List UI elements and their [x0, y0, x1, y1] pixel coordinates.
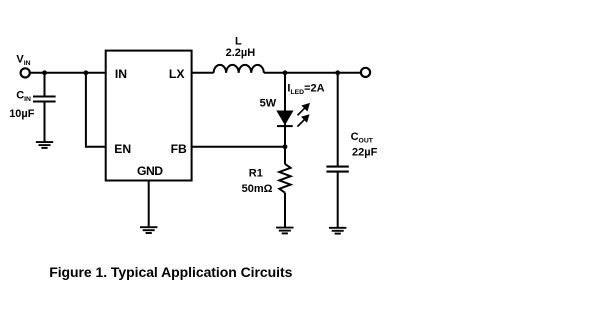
svg-text:5W: 5W [260, 97, 277, 109]
wire FB [192, 146, 285, 148]
wire LED to FB node [284, 124, 286, 147]
LED emission arrows [297, 103, 310, 127]
IC U1 block [106, 51, 192, 181]
wire EN branch [86, 73, 106, 147]
svg-text:Figure 1. Typical Application: Figure 1. Typical Application Circuits [49, 264, 292, 280]
svg-text:2.2µH: 2.2µH [226, 47, 256, 59]
wire R1 to ground [284, 193, 286, 228]
wire CIN to ground [44, 102, 46, 143]
svg-text:22µF: 22µF [352, 146, 378, 158]
svg-text:R1: R1 [249, 168, 263, 180]
wire COUT branch down [337, 73, 339, 166]
capacitor CIN plates [33, 95, 56, 97]
svg-text:EN: EN [114, 142, 131, 156]
svg-text:IN: IN [115, 67, 127, 81]
wire GND pin down [148, 181, 150, 228]
LED D1 [277, 111, 293, 126]
output terminal [361, 68, 370, 77]
svg-text:10µF: 10µF [9, 108, 35, 120]
capacitor CIN [33, 73, 56, 142]
wire inductor to output terminal [264, 72, 361, 74]
wire down to CIN [44, 73, 46, 96]
node EN tap [84, 70, 89, 75]
capacitor COUT plates [326, 166, 348, 168]
svg-text:FB: FB [171, 142, 187, 156]
input terminal VIN [21, 68, 30, 77]
ground (COUT) [329, 228, 346, 234]
svg-text:GND: GND [137, 164, 163, 178]
node CIN tap [42, 70, 47, 75]
wire VIN to IN pin [30, 72, 106, 74]
ground (CIN) [36, 142, 53, 148]
ground (IC GND) [140, 227, 157, 233]
wire LX to inductor [192, 72, 214, 74]
svg-text:L: L [235, 36, 242, 48]
wire to R1 [284, 147, 286, 164]
node LED branch [283, 70, 288, 75]
svg-text:LX: LX [169, 67, 185, 81]
wire COUT to ground [337, 172, 339, 228]
node FB junction [283, 144, 288, 149]
ground (R1) [276, 228, 293, 234]
wire node to LED [284, 73, 286, 112]
node COUT branch [335, 70, 340, 75]
inductor L [214, 65, 264, 73]
resistor R1 [279, 164, 290, 193]
svg-text:50mΩ: 50mΩ [242, 183, 273, 195]
